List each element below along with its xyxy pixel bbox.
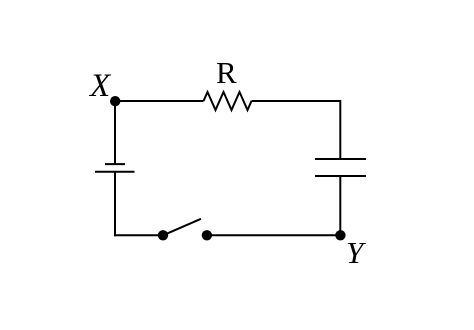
wire top-right segment [252, 100, 342, 102]
switch arm blade [163, 219, 201, 236]
switch right contact dot [202, 230, 212, 240]
svg-text:Y: Y [346, 235, 366, 270]
battery long plate (positive) [95, 171, 135, 173]
wire right lower segment [339, 176, 341, 236]
wire right upper segment [339, 100, 341, 159]
node Y junction dot [335, 230, 345, 240]
switch left contact dot [158, 230, 168, 240]
svg-text:X: X [88, 68, 112, 104]
label R [216, 55, 237, 90]
wire left lower segment [114, 172, 116, 237]
node X junction dot [110, 96, 120, 106]
capacitor C bottom plate [315, 175, 366, 177]
battery short plate (negative) [105, 163, 125, 165]
wire bottom-left segment [114, 234, 163, 236]
wire left upper segment [114, 101, 116, 164]
label Y [346, 235, 366, 270]
wire bottom-right segment [207, 234, 340, 236]
capacitor C top plate [315, 158, 366, 160]
label X [88, 68, 112, 104]
svg-text:R: R [216, 55, 237, 90]
resistor R [204, 92, 252, 110]
wire top-left segment [115, 100, 204, 102]
